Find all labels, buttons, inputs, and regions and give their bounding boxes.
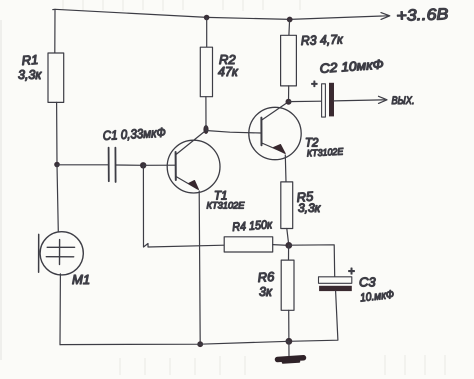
wire top rail middle [207,17,290,19]
wire C3 bottom to ground node [289,291,338,341]
node dot on top rail at R3 [287,17,293,23]
capacitor C2 [311,57,384,118]
wire base node to T1 base bar [143,164,175,166]
wire junction to C1 left plate [57,164,108,166]
transistor T1 [167,131,245,212]
node T1 emitter on bottom rail [197,341,203,347]
svg-text:+3..6В: +3..6В [396,6,449,25]
capacitor C3 [319,266,395,304]
resistor R1 [18,52,64,103]
resistor R5 [281,182,322,229]
svg-text:M1: M1 [72,272,90,287]
svg-text:C3: C3 [359,275,376,290]
svg-text:47к: 47к [218,65,239,79]
supply arrow head [381,13,390,20]
wire M1 bottom to bottom rail [59,274,61,345]
wire emitter node down to R6 [288,245,290,260]
wire top rail left [53,9,207,17]
svg-text:3к: 3к [259,285,273,299]
wire bottom rail [60,341,289,344]
svg-text:R6: R6 [257,269,275,285]
node T2 emitter junction [285,242,292,249]
node ground junction [286,338,293,345]
wire feedback: base node down and right to R4 [143,165,224,247]
svg-text:ВЫХ.: ВЫХ. [392,95,415,107]
wire C1 right plate to T1 base node [116,164,143,166]
wire T2 emitter down to R5 [284,155,287,182]
wire R2 bottom to collector node [205,97,207,130]
svg-text:R1: R1 [21,52,39,68]
svg-text:R4 150к: R4 150к [232,217,274,234]
wire T1 emitter down to bottom rail [199,191,200,344]
node T2 collector junction [286,99,292,105]
resistor R2 [200,47,239,96]
transistor T2 [249,102,344,160]
ground [278,341,304,362]
resistor R3 [281,32,344,86]
capacitor C1 [102,125,166,182]
wire C1 junction down to M1 [57,165,58,232]
wire left vertical from top rail to R1 [54,9,56,53]
wire R5 bottom to emitter node [287,229,289,246]
wire top rail right to supply arrow [290,16,388,20]
wire R4 right to emitter node [273,244,289,247]
node T1 base junction [140,162,146,168]
wire R1 bottom to C1 junction [56,102,58,164]
resistor R6 [257,260,294,310]
svg-text:КТ3102Е: КТ3102Е [207,201,246,212]
svg-text:КТ3102Е: КТ3102Е [307,147,345,160]
wire R3 bottom to collector node [288,86,290,102]
wire top rail to R2 [206,18,208,48]
wire C2 to output arrow [334,100,385,101]
svg-text:R3 4,7к: R3 4,7к [301,32,344,48]
node R2/T1 collector junction [203,125,208,134]
left paper edge shading [0,20,2,360]
resistor R4 [224,217,274,252]
wire emitter node right and down to C3 [289,245,335,277]
wire R6 bottom to ground node [288,310,290,341]
svg-text:3,3к: 3,3к [18,68,42,82]
wire collector node to C2 [289,100,322,102]
wire top rail to R3 [288,20,291,36]
wire collector node to T2 base [206,131,261,134]
node C1/R1/M1 junction [54,162,60,168]
svg-text:+: + [311,79,318,91]
microphone M1 [39,232,90,287]
svg-text:+: + [348,266,355,278]
node dot on top rail at R2 [204,15,210,21]
output arrow head [379,96,388,103]
svg-text:3,3к: 3,3к [298,201,322,215]
